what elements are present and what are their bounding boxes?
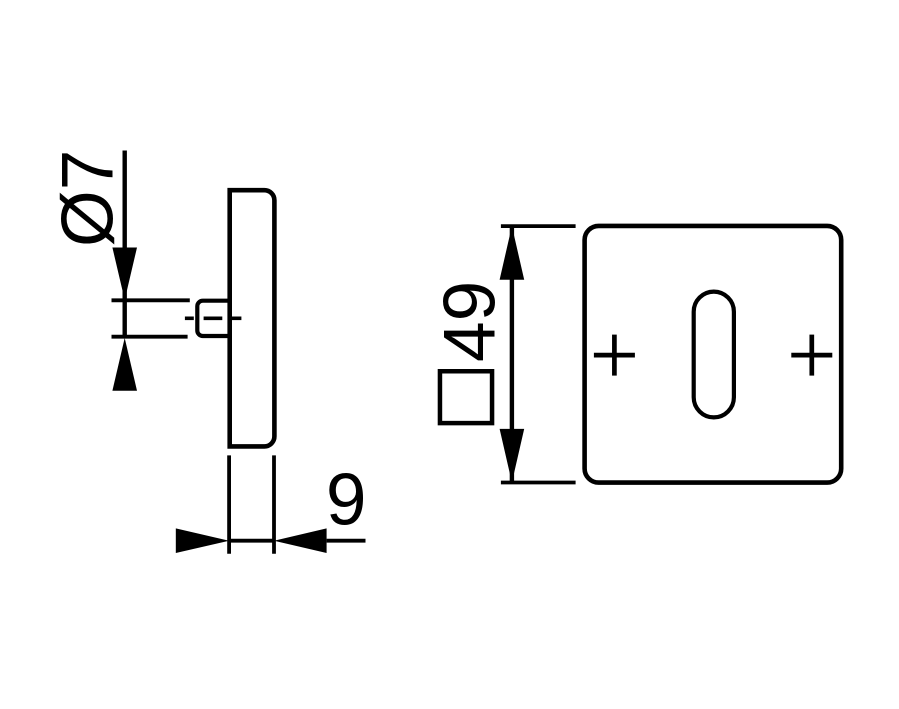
- svg-text:9: 9: [326, 460, 367, 541]
- svg-text:49: 49: [430, 281, 511, 362]
- svg-text:Ø7: Ø7: [48, 150, 129, 247]
